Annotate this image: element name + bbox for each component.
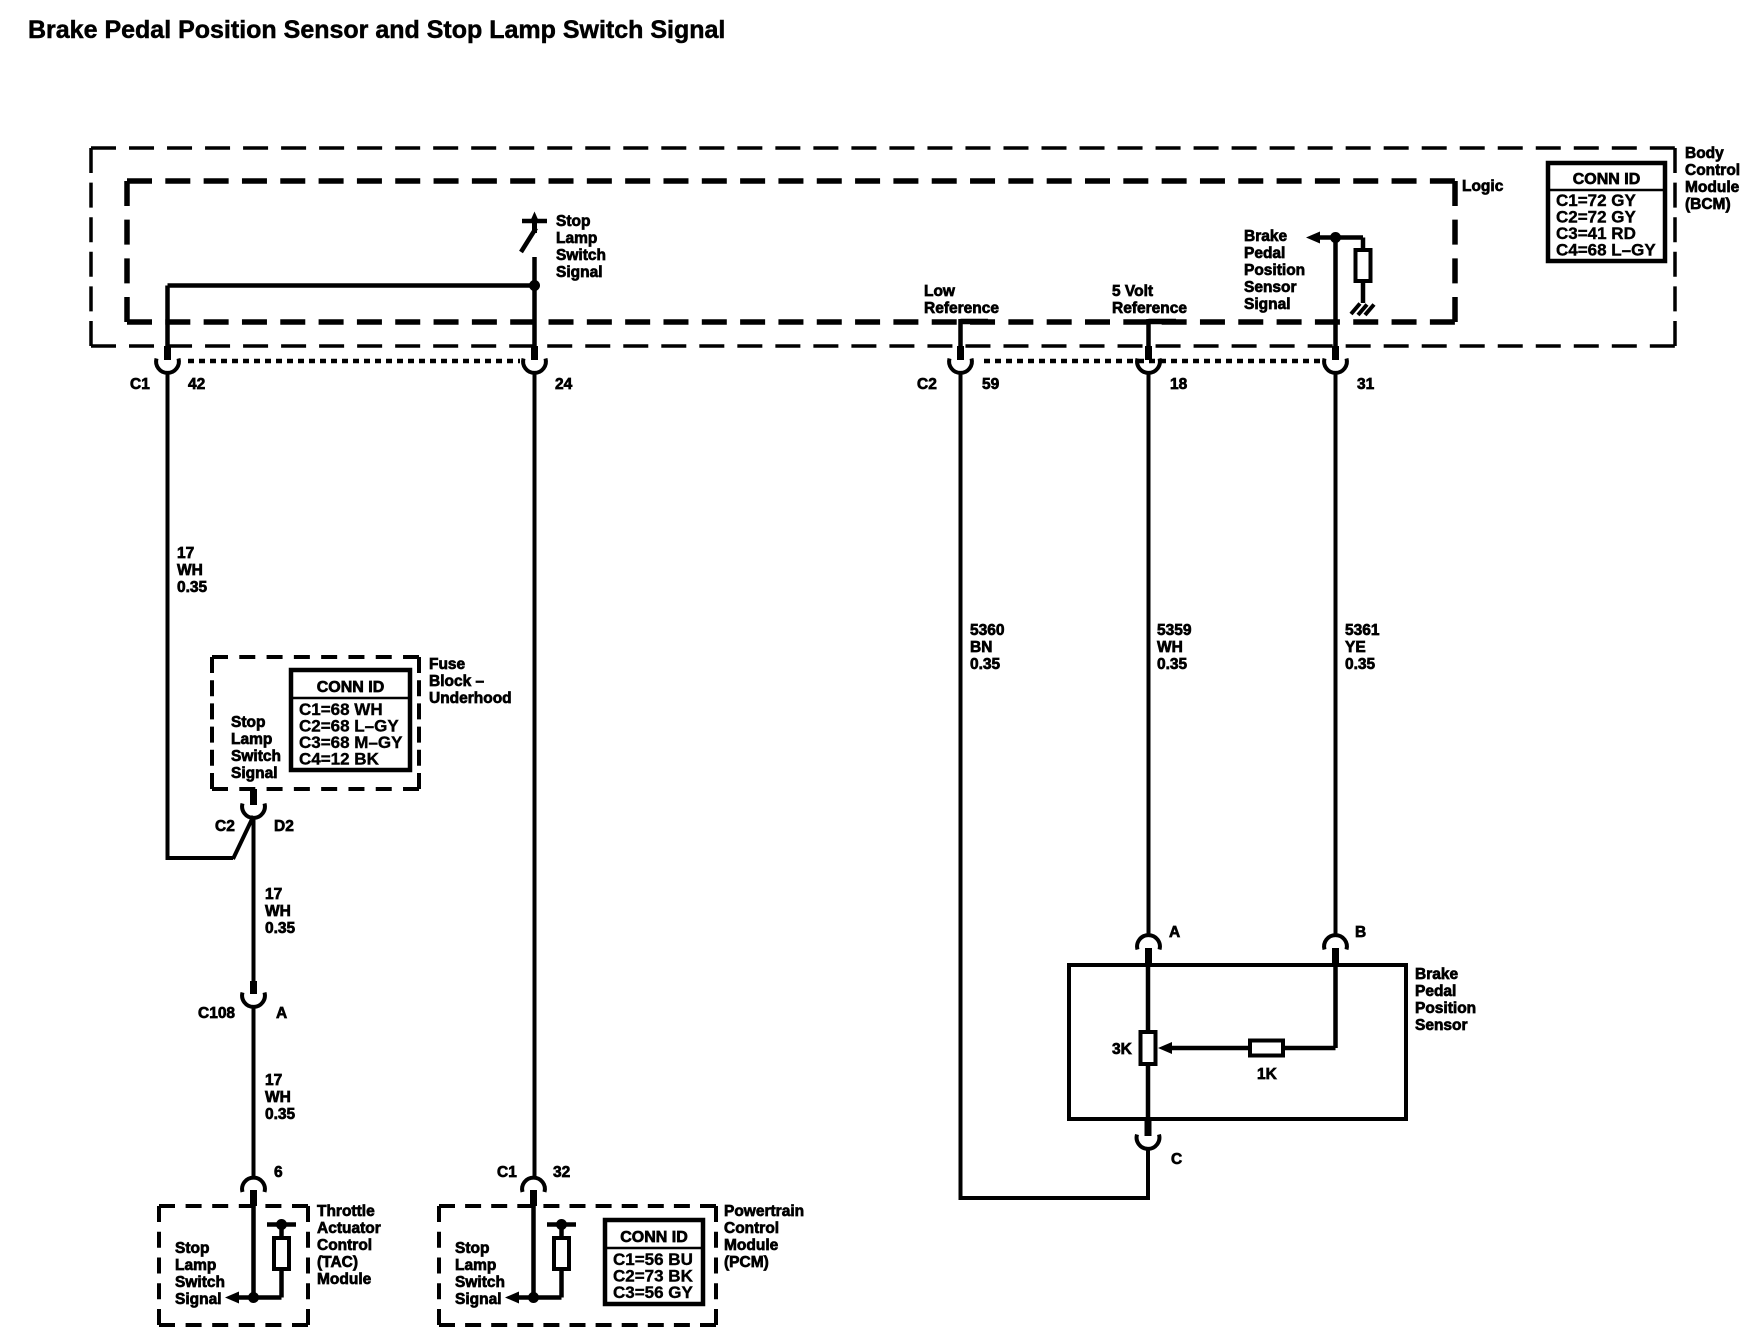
svg-text:(BCM): (BCM) xyxy=(1685,196,1731,213)
svg-text:6: 6 xyxy=(274,1164,283,1181)
svg-text:Module: Module xyxy=(724,1237,779,1254)
svg-text:42: 42 xyxy=(188,376,205,393)
svg-text:Body: Body xyxy=(1685,145,1724,162)
svg-text:WH: WH xyxy=(265,903,291,920)
svg-text:C: C xyxy=(1171,1151,1182,1168)
svg-text:Module: Module xyxy=(317,1271,372,1288)
svg-text:Actuator: Actuator xyxy=(317,1220,381,1237)
svg-text:Lamp: Lamp xyxy=(231,731,272,748)
svg-text:0.35: 0.35 xyxy=(1345,656,1376,673)
svg-text:Stop: Stop xyxy=(455,1240,489,1257)
svg-text:31: 31 xyxy=(1357,376,1375,393)
svg-text:Position: Position xyxy=(1244,262,1305,279)
svg-text:5359: 5359 xyxy=(1157,622,1192,639)
svg-text:Switch: Switch xyxy=(175,1274,225,1291)
svg-text:CONN ID: CONN ID xyxy=(1573,171,1641,188)
svg-text:Stop: Stop xyxy=(231,714,265,731)
svg-text:Lamp: Lamp xyxy=(175,1257,216,1274)
svg-text:C108: C108 xyxy=(198,1005,235,1022)
svg-text:(PCM): (PCM) xyxy=(724,1254,769,1271)
svg-text:0.35: 0.35 xyxy=(1157,656,1188,673)
svg-text:B: B xyxy=(1355,924,1366,941)
svg-text:Module: Module xyxy=(1685,179,1740,196)
svg-text:CONN ID: CONN ID xyxy=(620,1229,688,1246)
svg-text:24: 24 xyxy=(555,376,573,393)
svg-text:Switch: Switch xyxy=(556,247,606,264)
svg-text:D2: D2 xyxy=(274,818,294,835)
svg-text:Signal: Signal xyxy=(231,765,278,782)
svg-text:5360: 5360 xyxy=(970,622,1004,639)
svg-text:0.35: 0.35 xyxy=(970,656,1001,673)
svg-text:32: 32 xyxy=(553,1164,570,1181)
svg-text:Control: Control xyxy=(724,1220,779,1237)
svg-text:5 Volt: 5 Volt xyxy=(1112,283,1153,300)
svg-text:C1: C1 xyxy=(497,1164,517,1181)
svg-text:Signal: Signal xyxy=(175,1291,222,1308)
svg-text:Powertrain: Powertrain xyxy=(724,1203,804,1220)
svg-text:Position: Position xyxy=(1415,1000,1476,1017)
svg-text:0.35: 0.35 xyxy=(265,1106,296,1123)
svg-text:WH: WH xyxy=(1157,639,1183,656)
svg-text:17: 17 xyxy=(265,1072,282,1089)
svg-text:C4=12 BK: C4=12 BK xyxy=(299,750,380,769)
svg-text:Throttle: Throttle xyxy=(317,1203,375,1220)
svg-text:Pedal: Pedal xyxy=(1415,983,1456,1000)
svg-text:18: 18 xyxy=(1170,376,1188,393)
svg-text:Pedal: Pedal xyxy=(1244,245,1285,262)
svg-text:Lamp: Lamp xyxy=(455,1257,496,1274)
svg-text:Switch: Switch xyxy=(455,1274,505,1291)
svg-text:0.35: 0.35 xyxy=(177,579,208,596)
svg-text:Signal: Signal xyxy=(455,1291,502,1308)
svg-text:(TAC): (TAC) xyxy=(317,1254,358,1271)
svg-text:17: 17 xyxy=(265,886,282,903)
svg-text:5361: 5361 xyxy=(1345,622,1380,639)
svg-text:C1: C1 xyxy=(130,376,150,393)
svg-text:Signal: Signal xyxy=(556,264,603,281)
svg-text:C3=56 GY: C3=56 GY xyxy=(613,1283,694,1302)
svg-text:WH: WH xyxy=(177,562,203,579)
svg-text:Stop: Stop xyxy=(556,213,590,230)
svg-text:Brake: Brake xyxy=(1415,966,1458,983)
svg-text:BN: BN xyxy=(970,639,992,656)
svg-text:Reference: Reference xyxy=(924,300,999,317)
svg-text:Sensor: Sensor xyxy=(1244,279,1297,296)
svg-text:Control: Control xyxy=(1685,162,1740,179)
svg-text:0.35: 0.35 xyxy=(265,920,296,937)
svg-text:A: A xyxy=(1169,924,1180,941)
svg-text:Fuse: Fuse xyxy=(429,656,466,673)
svg-text:59: 59 xyxy=(982,376,1000,393)
svg-text:CONN ID: CONN ID xyxy=(317,679,385,696)
svg-text:Lamp: Lamp xyxy=(556,230,597,247)
svg-text:Stop: Stop xyxy=(175,1240,209,1257)
svg-text:C4=68 L–GY: C4=68 L–GY xyxy=(1556,241,1656,260)
svg-text:Low: Low xyxy=(924,283,956,300)
svg-text:YE: YE xyxy=(1345,639,1366,656)
svg-text:Switch: Switch xyxy=(231,748,281,765)
svg-text:1K: 1K xyxy=(1257,1066,1278,1083)
svg-text:C2: C2 xyxy=(917,376,937,393)
svg-text:Control: Control xyxy=(317,1237,372,1254)
svg-text:Reference: Reference xyxy=(1112,300,1187,317)
svg-text:A: A xyxy=(276,1005,287,1022)
svg-text:Brake Pedal Position Sensor an: Brake Pedal Position Sensor and Stop Lam… xyxy=(28,16,725,44)
svg-text:Underhood: Underhood xyxy=(429,690,512,707)
svg-text:C2: C2 xyxy=(215,818,235,835)
svg-text:Brake: Brake xyxy=(1244,228,1287,245)
svg-text:Block –: Block – xyxy=(429,673,485,690)
svg-text:3K: 3K xyxy=(1112,1041,1133,1058)
svg-text:Logic: Logic xyxy=(1462,178,1504,195)
svg-text:Sensor: Sensor xyxy=(1415,1017,1468,1034)
svg-text:17: 17 xyxy=(177,545,194,562)
svg-text:WH: WH xyxy=(265,1089,291,1106)
svg-text:Signal: Signal xyxy=(1244,296,1291,313)
